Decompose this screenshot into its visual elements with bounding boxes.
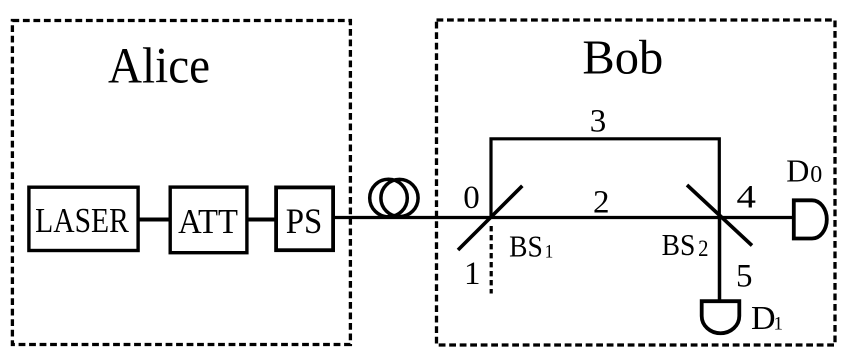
- wire LASER to ATT: [139, 218, 171, 222]
- phase shifter box PS: [276, 187, 333, 250]
- svg-text:4: 4: [736, 178, 755, 215]
- svg-text:BS: BS: [509, 230, 543, 264]
- Alice label: [108, 37, 210, 94]
- detector D1 label: [751, 300, 783, 337]
- svg-text:1: 1: [545, 241, 554, 262]
- wire BS2 down to detector D1: [718, 218, 722, 301]
- node 4 label: [736, 178, 755, 215]
- wire upper interferometer arm path 3: [491, 139, 719, 218]
- svg-text:2: 2: [698, 236, 708, 261]
- svg-text:2: 2: [593, 185, 610, 221]
- beam splitter BS2: [687, 185, 752, 246]
- svg-text:LASER: LASER: [35, 202, 129, 241]
- detector D1: [702, 301, 740, 333]
- svg-text:5: 5: [736, 259, 753, 295]
- Bob label: [582, 30, 663, 84]
- BS1 label: [509, 230, 553, 264]
- laser label LASER: [35, 202, 129, 241]
- fiber coil loop right: [381, 179, 418, 216]
- svg-text:Bob: Bob: [582, 30, 663, 84]
- Alice dashed box: [12, 21, 350, 345]
- Bob dashed box: [437, 20, 836, 345]
- detector D0: [794, 200, 827, 238]
- detector D0 label: [786, 153, 822, 189]
- wire ATT to PS: [247, 218, 276, 222]
- svg-text:D: D: [786, 153, 809, 189]
- svg-text:3: 3: [590, 104, 607, 140]
- svg-text:0: 0: [810, 162, 822, 188]
- fiber coil loop left: [370, 179, 408, 217]
- attenuator label ATT: [178, 203, 238, 241]
- svg-text:BS: BS: [662, 229, 696, 263]
- svg-text:PS: PS: [286, 203, 323, 241]
- phase shifter label PS: [286, 203, 323, 241]
- main fiber wire PS to D0: [333, 216, 792, 219]
- svg-text:1: 1: [774, 314, 784, 335]
- BS2 label: [662, 229, 709, 263]
- svg-text:Alice: Alice: [108, 37, 210, 94]
- beam splitter BS1: [458, 186, 522, 250]
- laser box: [29, 187, 138, 250]
- svg-text:0: 0: [463, 180, 480, 216]
- attenuator box ATT: [170, 187, 247, 253]
- svg-text:1: 1: [464, 256, 481, 292]
- svg-text:ATT: ATT: [178, 203, 238, 241]
- dashed output port below BS1: [490, 226, 493, 294]
- svg-text:D: D: [751, 300, 776, 337]
